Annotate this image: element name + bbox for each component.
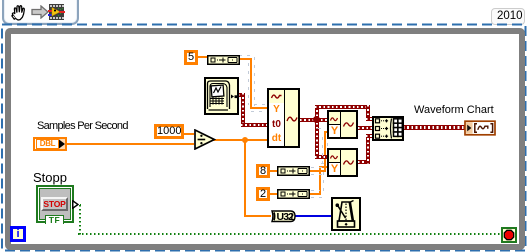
wire: 2 up [319, 166, 321, 195]
LabVIEW film/transition icon [48, 4, 65, 20]
BW waveform-in cell [269, 90, 285, 104]
wire: build waveform out to top filter [300, 118, 327, 122]
loop condition terminal [501, 227, 517, 243]
constant 2 [256, 187, 270, 201]
Build Array node [372, 116, 404, 141]
Waveform Chart terminal [464, 120, 496, 136]
cursor arrow tool icon [31, 5, 51, 19]
wire: 2-node output [310, 193, 321, 195]
constant 8 [256, 164, 270, 178]
STOP button [41, 197, 68, 211]
subVI (default VI icon) [204, 77, 239, 115]
wire: into Y input [250, 107, 267, 109]
Wait Until Next ms Multiple (metronome) [331, 197, 361, 231]
wire: maroon bus vertical [315, 106, 319, 159]
U32 conversion node [270, 210, 296, 223]
wire: 2 into bottom filter Y [319, 166, 327, 168]
hand tool icon [9, 3, 27, 21]
wire (waveform): subVI output [238, 93, 245, 97]
wire: U32 blue to metronome [295, 215, 331, 217]
constant 5 [184, 50, 198, 65]
scale node (2) [277, 189, 310, 199]
Stopp output arrow [72, 200, 79, 209]
wire: scale node right [239, 58, 252, 60]
Samples Per Second label [37, 121, 128, 132]
wire: bypass down into build array row1 [366, 105, 370, 119]
Waveform Chart label [414, 105, 494, 116]
toolbar palette box [2, 0, 79, 25]
wire: 2 to scale node [269, 193, 277, 195]
scale node (8) [277, 166, 310, 176]
Build Waveform node [267, 88, 300, 148]
iteration terminal i [10, 226, 26, 242]
BW output glyph [286, 112, 299, 126]
wire: to U32 [244, 215, 271, 217]
BW t0 cell [269, 117, 285, 133]
Stopp boolean control [36, 185, 74, 223]
TF tab [45, 215, 64, 224]
selection ants (gray dashes around selected wires) [239, 55, 253, 56]
2010 label box [491, 8, 525, 25]
junction dot (orange) [242, 137, 248, 143]
scale node (5) [207, 55, 240, 65]
wire: DBL terminal to divide y input [67, 143, 194, 145]
wire: 8 to scale node [269, 170, 277, 172]
DBL control terminal [33, 137, 67, 151]
BW Y cell [269, 103, 285, 118]
BW dt cell [269, 132, 285, 146]
wire: into t0 [241, 123, 267, 127]
wire: junction down [244, 140, 246, 215]
wire: 1000 to divide x input [183, 133, 194, 135]
top filter node [327, 110, 358, 139]
wire: top bypass horizontal [315, 105, 370, 109]
wire: 5 to scale node [197, 56, 207, 58]
wire: 8-node output [310, 170, 326, 172]
wire: into bottom filter [315, 155, 327, 159]
bottom filter node [327, 148, 358, 177]
wire: divide output to dt (through junction) [213, 139, 267, 141]
junction dot (maroon) [313, 116, 320, 123]
wire: 8 into top filter Y [324, 131, 327, 133]
wire: subVI down [241, 93, 245, 127]
wire: 8 up [324, 131, 326, 172]
wire: bottom filter out [358, 160, 370, 164]
Stopp label [33, 171, 67, 184]
wire: Stopp green dotted [76, 204, 81, 206]
divide node [194, 129, 216, 150]
wire: build array out to waveform chart [403, 125, 465, 130]
constant 1000 [154, 124, 184, 139]
wire: top filter out to build array row2 [358, 126, 372, 130]
wire: down to Y [250, 58, 252, 108]
